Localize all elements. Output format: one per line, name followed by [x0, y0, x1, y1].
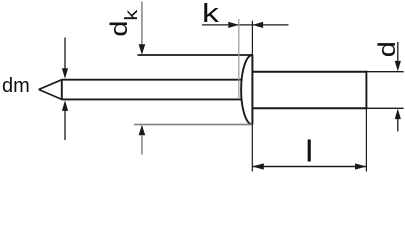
d bottom extension line	[366, 107, 403, 109]
k right extension line	[251, 21, 253, 55]
svg-text:dk: dk	[105, 10, 141, 37]
k arrow left	[253, 22, 264, 28]
dm dimension line upper	[64, 38, 66, 70]
l arrow right	[355, 163, 367, 169]
l dimension line	[252, 166, 366, 168]
svg-text:k: k	[202, 0, 220, 28]
d top extension line	[366, 71, 403, 73]
svg-text:d: d	[373, 41, 400, 57]
l right extension line	[365, 108, 367, 171]
dk arrow up	[139, 125, 146, 136]
k dimension line	[202, 24, 289, 26]
dm dimension line lower	[64, 110, 66, 141]
k arrow right	[228, 22, 239, 28]
l arrow left	[252, 163, 263, 169]
d arrow down	[395, 61, 401, 72]
d arrow up	[395, 109, 401, 120]
rivet body bottom line	[252, 107, 366, 109]
mandrel cone bottom edge	[39, 90, 62, 100]
dk dimension line upper (gray)	[141, 2, 143, 46]
d dimension line upper	[397, 42, 399, 62]
mandrel cone top edge	[39, 80, 62, 90]
dk arrow down	[139, 44, 146, 55]
rivet head dome (half ellipse)	[241, 55, 252, 125]
mandrel cone base line	[61, 79, 63, 100]
mandrel shaft top line	[62, 79, 242, 81]
svg-text:dm: dm	[2, 75, 30, 97]
d dimension line lower	[397, 118, 399, 131]
dk top extension line	[138, 54, 253, 56]
rivet body end line	[365, 71, 367, 110]
l left extension line	[251, 125, 253, 172]
dk dimension line lower (gray)	[141, 135, 143, 154]
dm arrow up	[62, 100, 68, 111]
k left extension line (gray)	[238, 19, 240, 99]
mandrel shaft bottom line	[62, 98, 242, 100]
dk bottom extension line (gray)	[134, 124, 252, 126]
dm arrow down	[62, 68, 68, 79]
rivet head right face	[251, 55, 253, 125]
svg-text:l: l	[305, 135, 313, 169]
rivet body top line	[252, 71, 366, 73]
